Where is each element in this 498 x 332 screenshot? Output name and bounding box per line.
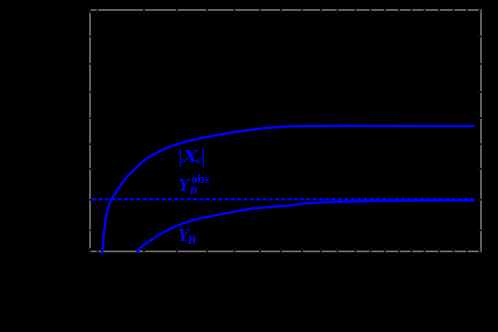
x-axis ticks (top spine) [89, 9, 91, 13]
dashed line Y_B^obs level [92, 198, 473, 201]
curve |X_e| [101, 126, 473, 253]
y-axis ticks (right spine) [478, 36, 482, 38]
svg-text:|: | [201, 146, 205, 167]
y-axis ticks (left spine) [89, 36, 93, 38]
curve Y_B [138, 201, 474, 252]
axes frame [90, 10, 481, 251]
svg-text:B: B [188, 183, 197, 197]
svg-text:B: B [187, 233, 196, 247]
x-axis ticks (bottom spine) [89, 248, 91, 252]
